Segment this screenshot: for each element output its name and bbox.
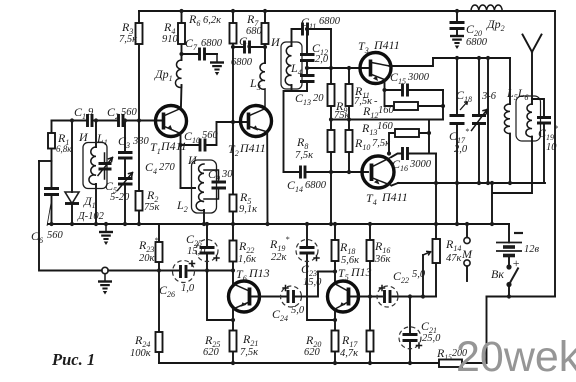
capacitor C15 (385, 84, 444, 97)
svg-text:5-20: 5-20 (110, 192, 130, 203)
capacitor C5 trimmer (118, 173, 133, 225)
capacitor C21 electrolytic (399, 297, 422, 364)
capacitor C9 (204, 170, 226, 199)
wire volume wiper riser (422, 255, 424, 297)
node R11 top (347, 66, 351, 70)
svg-text:+: + (512, 256, 520, 270)
svg-text:9: 9 (88, 107, 94, 118)
node T5 collector (333, 269, 337, 273)
node base T1 (137, 118, 141, 122)
node R10 bottom (347, 170, 351, 174)
node C20 top (455, 9, 459, 13)
node R23 bottom (157, 268, 161, 272)
wire audio output line (393, 296, 437, 298)
transistor T2 (241, 106, 272, 137)
wire T5 emitter drop (334, 309, 336, 331)
node R6 top (231, 9, 235, 13)
resistor R10 (346, 130, 353, 172)
svg-text:3000: 3000 (409, 159, 432, 170)
coil L1 (83, 121, 107, 225)
node T2 base (231, 120, 235, 124)
svg-text:П411: П411 (373, 38, 400, 52)
svg-text:10: 10 (546, 142, 557, 153)
junction dots bottom bus (231, 361, 412, 365)
transistor T3 (360, 53, 391, 84)
node C15 left (382, 88, 386, 92)
resistor R5 (230, 195, 237, 225)
svg-text:5,6к: 5,6к (341, 255, 359, 266)
capacitor C6 (44, 161, 59, 224)
ground below C20 (450, 36, 464, 49)
svg-text:3-6: 3-6 (481, 91, 497, 102)
wire cross-coupling right (429, 90, 443, 154)
wire T5 base (351, 296, 383, 298)
svg-text:6,2к: 6,2к (203, 15, 221, 26)
svg-text:47к: 47к (446, 253, 462, 264)
svg-text:И: И (78, 130, 89, 144)
node R4 top (179, 9, 183, 13)
junction dots common bus (49, 222, 494, 226)
node C18 top (477, 56, 481, 60)
svg-text:22к: 22к (271, 252, 287, 263)
wire middle common bus (48, 223, 509, 225)
svg-text:15,0: 15,0 (303, 277, 322, 288)
svg-text:25,0: 25,0 (422, 333, 441, 344)
node C14 right (329, 170, 333, 174)
svg-text:20: 20 (313, 93, 324, 104)
resistor R23 (156, 224, 163, 271)
resistor R20 (332, 331, 339, 364)
svg-text:П411: П411 (239, 141, 266, 155)
svg-text:75к: 75к (144, 202, 160, 213)
svg-text:6,8к: 6,8к (56, 144, 72, 154)
switch Vk (506, 264, 518, 296)
resistor R1 (48, 121, 55, 162)
node R13 right (427, 131, 431, 135)
resistor R24 (156, 271, 163, 364)
svg-text:12в: 12в (524, 244, 540, 255)
svg-text:160: 160 (378, 105, 395, 116)
wire T6 emitter drop (232, 309, 234, 331)
node T5 emitter jog (333, 318, 337, 322)
jack terminal on ground line (102, 267, 108, 273)
tick C17 variable (460, 102, 468, 111)
resistor R8 (328, 130, 335, 224)
resistor R17 (367, 297, 374, 364)
wire T3 collector to top link (390, 58, 434, 66)
wire T3 emitter drop (385, 80, 393, 107)
resistor R3 (136, 11, 143, 121)
svg-text:6800: 6800 (319, 16, 341, 27)
node input junction (70, 118, 74, 122)
junction dots audio line (368, 294, 511, 298)
wire C24 to T5 collector node (296, 272, 336, 297)
svg-text:6800: 6800 (201, 38, 223, 49)
svg-text:270: 270 (159, 162, 176, 173)
wire input top line (52, 120, 163, 122)
svg-text:20wek: 20wek (456, 333, 576, 381)
capacitor C23 electrolytic (296, 224, 335, 320)
capacitor C2 (119, 114, 124, 127)
junction dots detector line (434, 181, 512, 185)
coil L3 (259, 63, 265, 109)
wire T2 emitter (266, 132, 268, 224)
capacitor C25 electrolytic (196, 224, 219, 271)
node T6 emitter jog (231, 318, 235, 322)
svg-text:7,5к: 7,5к (240, 347, 258, 358)
svg-text:330: 330 (132, 136, 150, 147)
wire C25 column to emitter jog (207, 271, 233, 321)
capacitor C18 trimmer (472, 58, 488, 183)
node link top (486, 56, 490, 60)
capacitor C1 (88, 114, 93, 127)
svg-text:5,0: 5,0 (291, 305, 305, 316)
svg-text:1,6к: 1,6к (238, 254, 256, 265)
node T3 base left (329, 66, 333, 70)
svg-text:7,5к: 7,5к (119, 34, 137, 45)
node C12 top (305, 27, 309, 31)
svg-text:Рис. 1: Рис. 1 (51, 350, 95, 369)
node T6 collector (231, 268, 235, 272)
svg-text:620: 620 (203, 347, 220, 358)
choke Dr1 (175, 60, 181, 88)
svg-text:560: 560 (202, 130, 219, 141)
svg-text:160: 160 (377, 121, 394, 132)
svg-text:75к: 75к (334, 110, 350, 121)
wire T6 base (252, 296, 287, 298)
svg-text:И: И (187, 153, 198, 167)
capacitor C8 (233, 41, 265, 54)
wire mid coupling line (331, 119, 443, 121)
resistor R6 (230, 11, 237, 195)
node R12 right (441, 104, 445, 108)
svg-text:15,0: 15,0 (187, 246, 206, 257)
wire battery return horizontal (487, 296, 556, 298)
svg-text:И: И (270, 35, 281, 49)
svg-text:Вк: Вк (491, 267, 504, 281)
coil L2 with tap (181, 160, 217, 224)
diode D1 (65, 121, 79, 225)
resistor R4 (178, 11, 185, 60)
capacitor C20 (450, 11, 465, 36)
node C2/C3 junction (123, 118, 127, 122)
transistor T1 (156, 106, 187, 137)
antenna (523, 35, 542, 105)
wire coupling drop to bus (435, 154, 437, 225)
node C17 top (455, 56, 459, 60)
svg-text:М: М (461, 247, 473, 261)
svg-text:7,5к: 7,5к (372, 138, 390, 149)
svg-text:П13: П13 (248, 266, 270, 280)
svg-text:П13: П13 (350, 265, 372, 279)
wire upper coupling line (433, 57, 510, 59)
wire left drop to bottom bus (486, 297, 488, 364)
svg-text:9,1к: 9,1к (239, 204, 257, 215)
wire R1 jog (39, 160, 52, 162)
capacitor C24 electrolytic (281, 286, 302, 308)
capacitor C10 (181, 122, 248, 152)
svg-text:6800: 6800 (466, 37, 488, 48)
resistor R7 (262, 11, 269, 63)
svg-text:36к: 36к (374, 254, 391, 265)
coil L6 (492, 96, 541, 224)
wire right side vertical (554, 11, 556, 297)
wire detector output line (398, 182, 545, 184)
svg-text:Д-102: Д-102 (77, 211, 105, 222)
wire link column (487, 58, 489, 183)
svg-text:910: 910 (162, 34, 179, 45)
resistor R18 (332, 224, 339, 284)
svg-text:30: 30 (221, 169, 233, 180)
svg-text:7,5к: 7,5к (295, 150, 313, 161)
wire bottom bus right part (462, 362, 487, 364)
svg-text:560: 560 (121, 107, 138, 118)
svg-text:560: 560 (47, 230, 64, 241)
ground below jack (98, 274, 112, 295)
ground after C7 (210, 54, 224, 76)
node mid line R9 (329, 117, 333, 121)
capacitor C16 (392, 147, 437, 160)
node L1 top (94, 118, 98, 122)
svg-text:П411: П411 (381, 190, 408, 204)
node T1 emitter (178, 143, 182, 147)
resistor R25 (230, 331, 237, 364)
resistor R14 potentiometer (423, 224, 440, 297)
wire L4 bottom join (284, 91, 308, 172)
svg-text:2,0: 2,0 (454, 144, 468, 155)
resistor R9 (328, 68, 335, 130)
node C25 bottom (205, 268, 209, 272)
svg-text:6800: 6800 (231, 57, 253, 68)
wire input ground line (39, 161, 233, 271)
resistor R15 (439, 360, 462, 368)
coil L4 (281, 29, 302, 91)
leader C6 (47, 203, 51, 226)
node mid line R11 (347, 117, 351, 121)
wire top supply bus (139, 10, 555, 12)
svg-text:6800: 6800 (305, 180, 327, 191)
node R7 bottom (263, 45, 267, 49)
coil L5 (504, 58, 510, 183)
capacitor C4 variable (98, 153, 113, 179)
wire T1 emitter drop (180, 134, 182, 189)
capacitor C13 (300, 76, 315, 92)
svg-text:3000: 3000 (407, 72, 430, 83)
svg-text:620: 620 (304, 347, 321, 358)
svg-text:20к: 20к (139, 253, 155, 264)
svg-text:2,0: 2,0 (315, 54, 329, 65)
svg-text:5,0: 5,0 (412, 269, 426, 280)
wire C11 to T3 base (307, 29, 369, 68)
node L4 tap (305, 66, 309, 70)
transistor T6 (229, 281, 260, 312)
transistor T4 (362, 156, 394, 188)
transistor T5 (328, 281, 359, 312)
battery 12V (496, 224, 522, 266)
resistor R2 (136, 121, 143, 225)
resistor R13 (389, 129, 429, 152)
node C8 junction (231, 45, 235, 49)
resistor R11 (346, 68, 353, 130)
svg-text:680: 680 (246, 26, 263, 37)
svg-text:4,7к: 4,7к (340, 348, 358, 359)
capacitor C7 (182, 48, 218, 61)
battery minus (514, 232, 523, 234)
resistor R12 (394, 102, 443, 110)
ground on common bus (99, 224, 113, 245)
resistor R22 (230, 224, 237, 284)
node R7 top (263, 9, 267, 13)
node R4 bottom (179, 52, 183, 56)
capacitor C14 (284, 166, 369, 179)
svg-text:100к: 100к (130, 348, 151, 359)
wire T4 emitter to detector line (392, 183, 399, 186)
resistor R16 (367, 224, 374, 297)
node C16 left (387, 151, 391, 155)
capacitor C19 (532, 99, 551, 183)
capacitor C11 (292, 23, 332, 36)
capacitor C26 electrolytic (173, 261, 195, 283)
jack M terminals (464, 224, 470, 281)
capacitor C12 (300, 29, 315, 75)
node L6 drop (490, 181, 494, 185)
capacitor C17 (450, 58, 465, 224)
capacitor C3 (118, 121, 133, 179)
capacitor C22 electrolytic (377, 286, 398, 308)
svg-text:1,0: 1,0 (181, 283, 195, 294)
wire bottom bus left part (159, 362, 439, 364)
svg-text:П411: П411 (160, 139, 187, 153)
choke Dr2 (471, 5, 502, 11)
wire T1 collector (180, 85, 183, 109)
